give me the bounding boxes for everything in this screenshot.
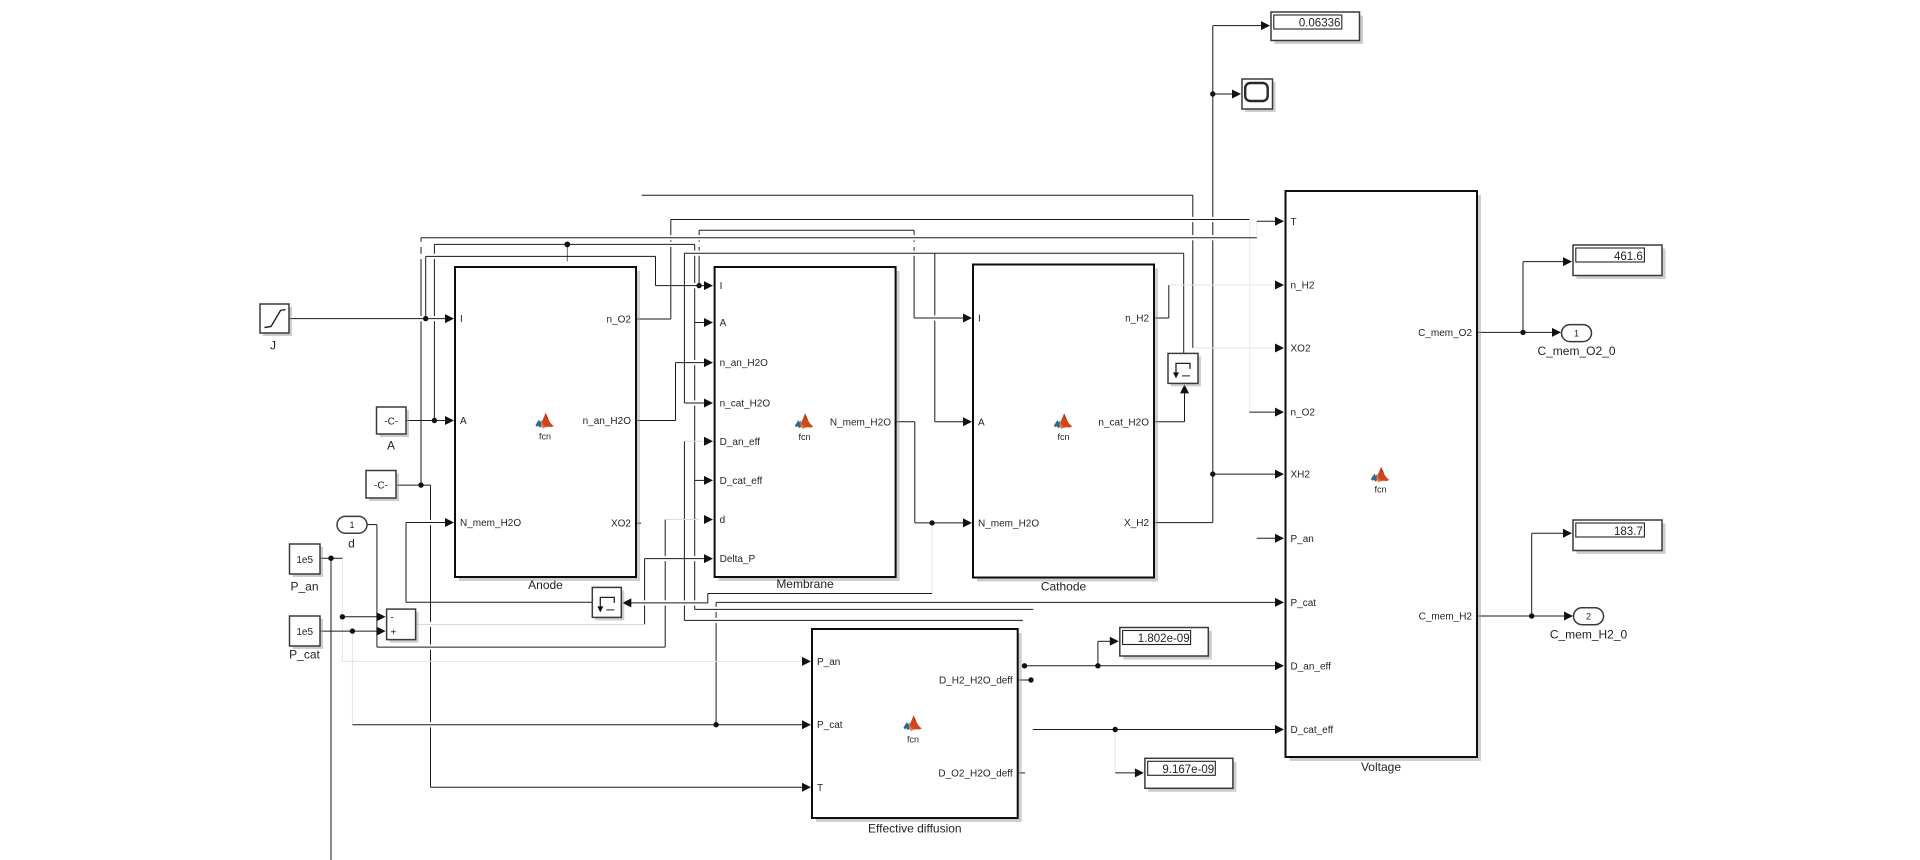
svg-text:n_cat_H2O: n_cat_H2O bbox=[1098, 417, 1149, 428]
svg-text:+: + bbox=[391, 628, 397, 639]
svg-text:D_cat_eff: D_cat_eff bbox=[720, 476, 763, 487]
svg-text:P_cat: P_cat bbox=[817, 720, 843, 731]
svg-text:n_an_H2O: n_an_H2O bbox=[720, 358, 769, 369]
svg-text:I: I bbox=[978, 314, 981, 325]
svg-text:I: I bbox=[720, 281, 723, 292]
svg-text:D_O2_H2O_deff: D_O2_H2O_deff bbox=[938, 768, 1013, 779]
svg-text:P_cat: P_cat bbox=[289, 648, 320, 662]
svg-text:P_an: P_an bbox=[817, 657, 840, 668]
svg-text:n_an_H2O: n_an_H2O bbox=[583, 416, 632, 427]
svg-text:n_cat_H2O: n_cat_H2O bbox=[720, 399, 771, 410]
svg-text:n_H2: n_H2 bbox=[1291, 281, 1315, 292]
svg-text:A: A bbox=[720, 318, 727, 329]
svg-text:T: T bbox=[817, 783, 823, 794]
svg-text:A: A bbox=[978, 417, 985, 428]
svg-text:-: - bbox=[391, 613, 394, 624]
svg-text:d: d bbox=[720, 515, 726, 526]
svg-text:1.802e-09: 1.802e-09 bbox=[1138, 633, 1190, 645]
svg-text:XO2: XO2 bbox=[611, 519, 631, 530]
svg-text:Anode: Anode bbox=[528, 578, 563, 592]
svg-text:D_cat_eff: D_cat_eff bbox=[1291, 725, 1334, 736]
svg-text:d: d bbox=[348, 537, 355, 551]
svg-text:0.06336: 0.06336 bbox=[1299, 18, 1341, 30]
svg-text:Voltage: Voltage bbox=[1361, 760, 1401, 774]
svg-text:n_H2: n_H2 bbox=[1125, 314, 1149, 325]
svg-text:2: 2 bbox=[1586, 611, 1591, 621]
svg-text:Delta_P: Delta_P bbox=[720, 554, 756, 565]
svg-text:N_mem_H2O: N_mem_H2O bbox=[830, 417, 891, 428]
svg-text:1: 1 bbox=[1574, 328, 1579, 338]
svg-text:n_O2: n_O2 bbox=[1291, 408, 1316, 419]
svg-text:-C-: -C- bbox=[384, 417, 398, 428]
svg-text:n_O2: n_O2 bbox=[607, 315, 632, 326]
svg-text:fcn: fcn bbox=[1057, 432, 1069, 442]
svg-text:Cathode: Cathode bbox=[1041, 580, 1087, 594]
svg-text:T: T bbox=[1291, 217, 1297, 228]
svg-text:461.6: 461.6 bbox=[1614, 251, 1643, 263]
svg-text:P_cat: P_cat bbox=[1291, 598, 1317, 609]
svg-text:D_an_eff: D_an_eff bbox=[720, 437, 761, 448]
svg-text:A: A bbox=[387, 439, 395, 453]
svg-text:1e5: 1e5 bbox=[296, 627, 313, 638]
svg-text:183.7: 183.7 bbox=[1614, 526, 1643, 538]
svg-text:X_H2: X_H2 bbox=[1124, 518, 1149, 529]
svg-text:1e5: 1e5 bbox=[296, 555, 313, 566]
svg-text:XH2: XH2 bbox=[1291, 470, 1311, 481]
svg-text:A: A bbox=[460, 416, 467, 427]
svg-text:I: I bbox=[460, 314, 463, 325]
svg-text:1: 1 bbox=[349, 520, 354, 530]
svg-text:C_mem_H2: C_mem_H2 bbox=[1419, 612, 1473, 623]
svg-text:C_mem_O2: C_mem_O2 bbox=[1418, 328, 1472, 339]
svg-text:fcn: fcn bbox=[798, 432, 810, 442]
svg-text:D_H2_H2O_deff: D_H2_H2O_deff bbox=[939, 676, 1013, 687]
svg-text:P_an: P_an bbox=[1291, 534, 1314, 545]
svg-text:9.167e-09: 9.167e-09 bbox=[1162, 764, 1214, 776]
svg-text:C_mem_O2_0: C_mem_O2_0 bbox=[1537, 344, 1615, 358]
svg-text:N_mem_H2O: N_mem_H2O bbox=[460, 518, 521, 529]
svg-text:D_an_eff: D_an_eff bbox=[1291, 661, 1332, 672]
svg-text:fcn: fcn bbox=[907, 735, 919, 745]
svg-text:Membrane: Membrane bbox=[776, 577, 834, 591]
svg-text:-C-: -C- bbox=[374, 481, 388, 492]
svg-text:C_mem_H2_0: C_mem_H2_0 bbox=[1550, 628, 1628, 642]
svg-text:Effective diffusion: Effective diffusion bbox=[868, 822, 962, 836]
svg-text:J: J bbox=[270, 339, 276, 353]
svg-text:XO2: XO2 bbox=[1291, 344, 1311, 355]
svg-text:fcn: fcn bbox=[1374, 485, 1386, 495]
svg-text:P_an: P_an bbox=[290, 580, 318, 594]
svg-text:N_mem_H2O: N_mem_H2O bbox=[978, 518, 1039, 529]
svg-text:fcn: fcn bbox=[539, 432, 551, 442]
